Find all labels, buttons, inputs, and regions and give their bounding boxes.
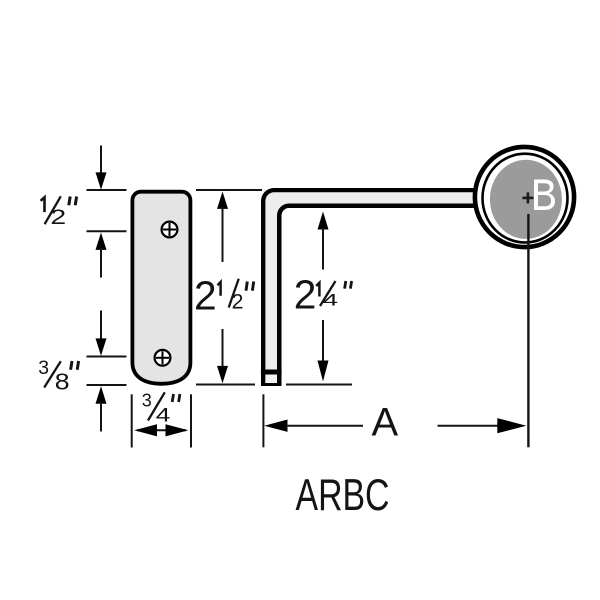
svg-text:ARBC: ARBC bbox=[296, 471, 390, 520]
svg-text:A: A bbox=[372, 401, 399, 445]
ball end outer ring bbox=[475, 147, 574, 247]
svg-text:2: 2 bbox=[194, 272, 217, 318]
mounting plate bbox=[132, 192, 190, 384]
ball end disc bbox=[490, 160, 562, 239]
arrow up to half tick bbox=[96, 233, 107, 278]
center line B bbox=[527, 214, 529, 447]
arrow down to three-eighth tick bbox=[96, 311, 107, 356]
svg-text:2: 2 bbox=[232, 290, 244, 313]
label 3/8 inch bbox=[38, 357, 78, 394]
center mark + bbox=[522, 192, 533, 203]
tube end cap band bbox=[261, 370, 282, 375]
tube arm interior bbox=[265, 192, 482, 383]
dim 3/4 double arrow bbox=[134, 424, 188, 436]
label 1/2 inch bbox=[41, 196, 77, 229]
ball end thin ring bbox=[483, 154, 568, 243]
dim A arrow left bbox=[264, 420, 363, 432]
label 3/4 inch bbox=[142, 390, 180, 426]
svg-text:3: 3 bbox=[38, 357, 49, 379]
arrow up to plate bottom bbox=[96, 386, 107, 431]
arrow down to plate top bbox=[96, 146, 107, 190]
svg-text:4: 4 bbox=[156, 405, 171, 427]
ext line A left bbox=[262, 394, 264, 447]
tick plate bottom left bbox=[87, 384, 127, 386]
dim 2-1/4 arrow down bbox=[318, 320, 329, 382]
label 2-1/2 inch bbox=[194, 272, 254, 318]
dim A arrow right bbox=[438, 418, 527, 433]
svg-text:2: 2 bbox=[50, 205, 66, 229]
tick half inch bbox=[87, 230, 127, 232]
dim 2-1/2 arrow down bbox=[217, 329, 228, 383]
ext line 3/4 left bbox=[131, 394, 133, 447]
dim 2-1/2 arrow up bbox=[217, 192, 228, 263]
tick tube bottom right bbox=[286, 384, 352, 386]
screw S1 bbox=[162, 222, 178, 238]
tube arm outline bbox=[261, 188, 482, 386]
tick plate top right bbox=[196, 189, 262, 191]
svg-text:4: 4 bbox=[323, 290, 338, 309]
svg-text:8: 8 bbox=[55, 369, 70, 395]
label B bbox=[534, 180, 555, 211]
screw S2 bbox=[155, 350, 171, 366]
ext line 3/4 right bbox=[190, 394, 192, 447]
dim 2-1/4 arrow up bbox=[318, 212, 329, 270]
svg-text:2: 2 bbox=[294, 272, 317, 318]
svg-text:3: 3 bbox=[142, 390, 152, 410]
tick three eighth top bbox=[87, 356, 127, 358]
tick plate top left bbox=[87, 189, 127, 191]
label 2-1/4 inch bbox=[294, 272, 352, 318]
tick plate bottom right bbox=[196, 384, 255, 386]
tube end cap box bbox=[265, 375, 277, 383]
